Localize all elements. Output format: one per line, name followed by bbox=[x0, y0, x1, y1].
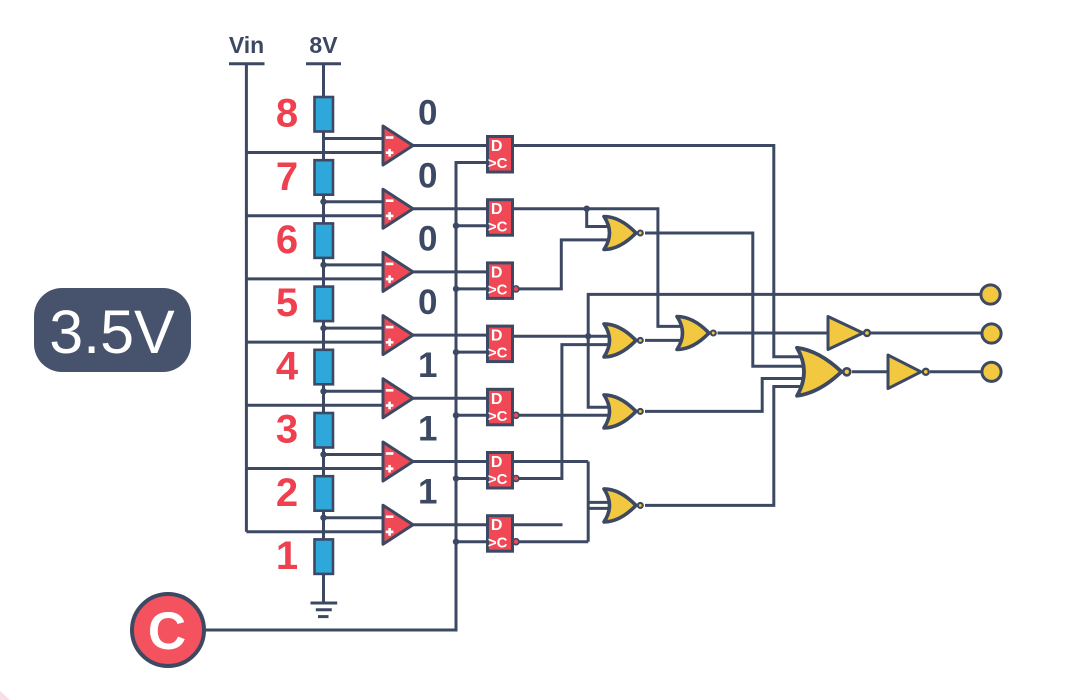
svg-text:7: 7 bbox=[276, 155, 298, 199]
svg-text:D: D bbox=[491, 264, 503, 281]
svg-text:3.5V: 3.5V bbox=[49, 298, 175, 366]
svg-text:D: D bbox=[491, 328, 503, 345]
svg-text:>C: >C bbox=[488, 155, 508, 172]
svg-text:>C: >C bbox=[488, 218, 508, 235]
svg-text:>C: >C bbox=[488, 534, 508, 551]
svg-text:1: 1 bbox=[418, 473, 437, 512]
svg-text:1: 1 bbox=[418, 409, 437, 448]
svg-text:0: 0 bbox=[418, 283, 437, 322]
svg-text:D: D bbox=[491, 391, 503, 408]
svg-text:0: 0 bbox=[418, 220, 437, 259]
svg-text:1: 1 bbox=[418, 346, 437, 385]
svg-text:0: 0 bbox=[418, 157, 437, 196]
svg-text:>C: >C bbox=[488, 471, 508, 488]
svg-text:6: 6 bbox=[276, 218, 298, 262]
svg-text:1: 1 bbox=[276, 534, 298, 578]
svg-text:4: 4 bbox=[276, 344, 299, 388]
svg-text:C: C bbox=[148, 602, 186, 661]
svg-text:D: D bbox=[491, 454, 503, 471]
svg-text:Vin: Vin bbox=[229, 32, 264, 58]
svg-text:D: D bbox=[491, 138, 503, 155]
svg-text:8V: 8V bbox=[309, 32, 338, 58]
svg-text:>C: >C bbox=[488, 345, 508, 362]
svg-text:2: 2 bbox=[276, 471, 298, 515]
svg-text:>C: >C bbox=[488, 282, 508, 299]
svg-text:D: D bbox=[491, 517, 503, 534]
svg-text:3: 3 bbox=[276, 408, 298, 452]
svg-text:0: 0 bbox=[418, 93, 437, 132]
svg-text:>C: >C bbox=[488, 408, 508, 425]
svg-text:D: D bbox=[491, 201, 503, 218]
svg-text:5: 5 bbox=[276, 281, 298, 325]
svg-text:8: 8 bbox=[276, 92, 298, 136]
